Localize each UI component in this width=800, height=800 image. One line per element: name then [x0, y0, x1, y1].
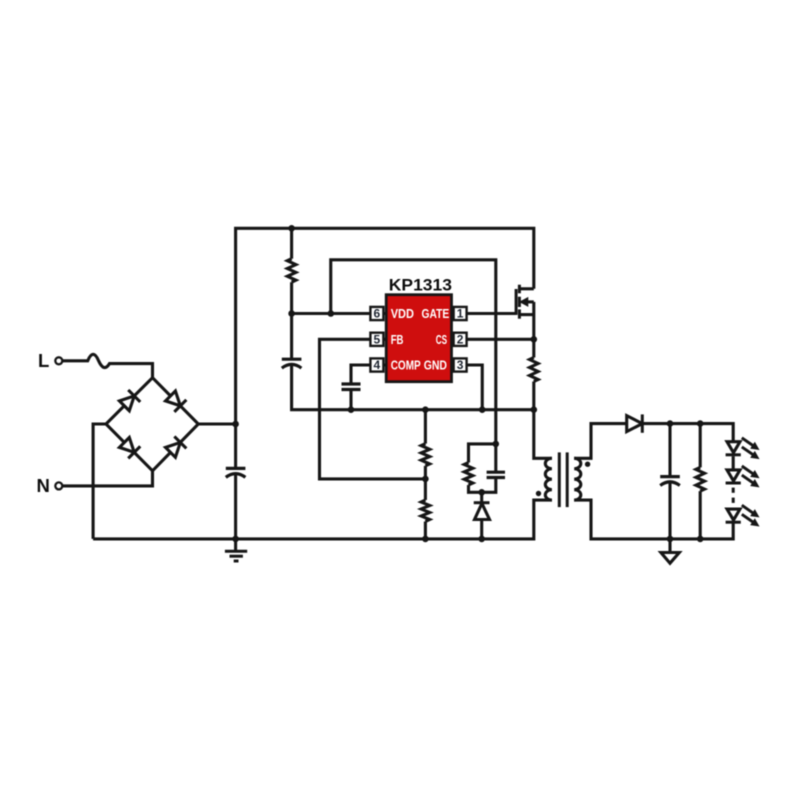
svg-text:5: 5	[374, 333, 381, 347]
svg-text:COMP: COMP	[391, 358, 421, 372]
svg-text:CS: CS	[436, 333, 447, 347]
svg-text:L: L	[38, 350, 49, 371]
svg-text:KP1313: KP1313	[389, 277, 452, 295]
svg-text:GND: GND	[424, 358, 447, 372]
svg-text:1: 1	[457, 307, 464, 321]
svg-text:3: 3	[457, 358, 464, 372]
svg-text:FB: FB	[391, 333, 404, 347]
svg-text:6: 6	[374, 307, 381, 321]
svg-text:N: N	[37, 475, 50, 496]
svg-text:VDD: VDD	[391, 307, 414, 321]
svg-text:GATE: GATE	[422, 307, 450, 321]
svg-text:4: 4	[374, 358, 381, 372]
svg-text:2: 2	[457, 333, 464, 347]
